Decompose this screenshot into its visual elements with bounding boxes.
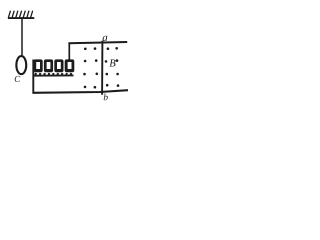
wire: solenoid body top edge <box>33 74 74 76</box>
wire: bottom rail <box>32 90 128 93</box>
wire: left edge of field loop <box>68 43 70 61</box>
ceiling hatch <box>8 11 32 18</box>
wire: top rail <box>68 42 127 43</box>
conducting rod ab <box>101 41 103 95</box>
ring C <box>16 56 26 74</box>
field dots (B out of page) <box>83 47 119 88</box>
coil return ticks <box>35 73 71 76</box>
label B <box>109 60 115 67</box>
string <box>21 19 23 58</box>
label a <box>103 36 108 41</box>
wire: coil block left edge <box>32 60 34 93</box>
coil L (solenoid winding, 4 turns) <box>34 59 75 76</box>
label b <box>104 94 108 101</box>
ceiling <box>8 17 34 19</box>
label C <box>15 76 21 82</box>
